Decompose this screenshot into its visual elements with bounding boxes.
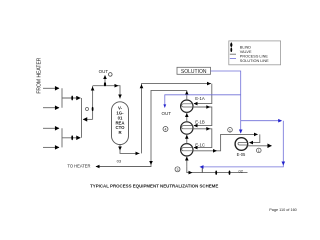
circled tag 4 left of E-1B: [163, 127, 168, 132]
circled tag 1 on E-05 outlet: [257, 148, 262, 153]
riser pipe left: [81, 98, 83, 138]
arrow into vessel: [118, 95, 122, 99]
svg-text:VALVE: VALVE: [240, 50, 252, 54]
svg-text:FROM HEATER: FROM HEATER: [37, 57, 43, 93]
header to vessel: [93, 86, 120, 99]
vent branch OUT: [104, 76, 106, 86]
collector header lower: [61, 128, 63, 147]
arrow into E-1C tube inlet: [194, 146, 198, 150]
shell outlet above E-1A: [186, 90, 188, 100]
valve on upper outlet: [71, 96, 73, 101]
blue arrow down solution out: [163, 104, 166, 108]
feed line 3 from heater: [43, 127, 59, 129]
circled tag 3 below E-1C: [175, 167, 180, 172]
solution supply box: [177, 67, 211, 74]
legend blind symbol: [230, 42, 232, 47]
shell riser E-1B to E-1A: [186, 112, 188, 121]
vessel V-1G-01 reactor: [112, 102, 129, 145]
svg-text:TO HEATER: TO HEATER: [67, 163, 90, 168]
arrow right vessel outlet: [136, 152, 140, 156]
feed line 2 from heater: [43, 107, 59, 109]
lower pair outlet line: [62, 137, 80, 139]
solution downcomer right: [201, 121, 284, 167]
svg-text:SOLUTION LINE: SOLUTION LINE: [240, 59, 269, 63]
vessel bottom outlet line: [120, 145, 140, 154]
valve on drain 1: [215, 171, 217, 175]
blue arrow down into E-05 feed: [239, 130, 243, 134]
heat exchanger E-1C: [181, 144, 193, 156]
svg-text:BLIND: BLIND: [240, 46, 251, 50]
solution main line blue: [211, 71, 241, 133]
arrow left to heater: [96, 165, 100, 169]
arrow right E-1A outlet: [206, 105, 210, 109]
valve on lower outlet: [71, 135, 73, 140]
arrow up vent: [103, 75, 107, 79]
legend solution line sample: [230, 57, 236, 59]
svg-text:E-1C: E-1C: [195, 142, 205, 147]
upper pair outlet line: [62, 97, 80, 99]
E-05 outlet line: [248, 145, 272, 147]
flow arrow right top header: [207, 82, 211, 86]
solution branch right to chain: [241, 120, 281, 122]
arrow up into E-1B shell: [185, 135, 189, 139]
riser from vessel outlet to top header: [142, 84, 212, 154]
drain line 02: [187, 167, 248, 173]
flow arrow up on riser: [91, 87, 95, 91]
feed line 1 from heater: [43, 87, 59, 89]
svg-text:R: R: [118, 130, 122, 135]
flow arrow up riser: [140, 84, 144, 88]
valve on riser: [92, 107, 94, 111]
blind on vent branch: [104, 82, 106, 86]
svg-text:02: 02: [239, 168, 244, 173]
E-1B tube outlet to E-1C: [193, 129, 212, 148]
svg-text:1: 1: [258, 149, 260, 153]
regulator circle on vent: [109, 73, 113, 77]
arrow into E-1B tube inlet: [194, 124, 198, 128]
flow arrow right on header: [115, 84, 119, 88]
valve on drain 2: [229, 171, 231, 175]
riser pipe to header: [92, 86, 94, 119]
shell riser below E-1C: [186, 156, 188, 167]
solution branch to out: [165, 95, 241, 105]
svg-text:03: 03: [117, 159, 122, 164]
svg-text:3: 3: [177, 168, 179, 172]
svg-text:Page 110 of 160: Page 110 of 160: [269, 208, 297, 212]
heat exchanger E-1B: [181, 122, 193, 134]
crossover jog line: [83, 118, 92, 120]
E-05 feed elbow down: [250, 134, 260, 142]
svg-text:TYPICAL PROCESS EQUIPMENT NEUT: TYPICAL PROCESS EQUIPMENT NEUTRALIZATION…: [90, 183, 218, 188]
heat exchanger E-1A: [181, 100, 193, 112]
arrow right E-1C outlet: [213, 149, 217, 153]
blue arrow right: [278, 119, 282, 123]
circled tag 1 on E-05 feed: [228, 128, 233, 133]
svg-text:OUT: OUT: [99, 69, 109, 74]
legend box: [229, 41, 281, 65]
legend valve symbol: [230, 48, 232, 52]
blue arrow left into chain: [200, 165, 204, 169]
drop stub from solution line: [201, 167, 203, 173]
arrow into E-05: [249, 141, 253, 145]
svg-text:PROCESS LINE: PROCESS LINE: [240, 54, 269, 58]
svg-text:E-05: E-05: [237, 152, 246, 157]
arrow down vessel outlet: [118, 147, 122, 151]
feed line 4 from heater: [43, 146, 59, 148]
arrow up into E-1A shell: [185, 113, 189, 117]
bleed circle symbol: [86, 108, 89, 111]
svg-text:1: 1: [229, 128, 231, 132]
arrow right E-1B outlet: [206, 127, 210, 131]
collector header upper: [61, 88, 63, 107]
E-1C tube outlet to E-05 feed: [193, 134, 258, 150]
arrow right on drain: [189, 171, 193, 175]
exchanger feed downcomer: [194, 84, 212, 104]
return header to heater: [96, 90, 187, 166]
shell riser E-1C to E-1B: [186, 134, 188, 143]
svg-text:4: 4: [165, 128, 167, 132]
svg-text:SOLUTION: SOLUTION: [181, 69, 207, 75]
arrow into E-1A tube inlet: [194, 102, 198, 106]
blue arrow down at corner: [282, 162, 286, 166]
E-1A tube outlet to E-1B: [193, 107, 212, 126]
svg-text:E-1A: E-1A: [195, 96, 205, 101]
svg-text:OUT: OUT: [161, 111, 171, 116]
svg-text:E-1B: E-1B: [195, 119, 205, 124]
arrow right E-05 feed: [254, 133, 258, 137]
arrow down return leg: [149, 161, 153, 165]
heat exchanger E-05: [235, 138, 248, 151]
arrow up into E-1C shell: [185, 157, 189, 161]
arrow up out of E-1A shell: [185, 91, 189, 95]
legend process line sample: [230, 53, 236, 55]
